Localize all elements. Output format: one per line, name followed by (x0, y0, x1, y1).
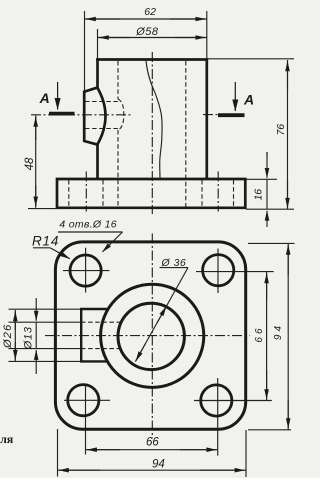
svg-text:R14: R14 (32, 234, 59, 249)
svg-text:для: для (0, 432, 14, 446)
svg-text:A: A (39, 90, 50, 106)
svg-text:4 отв.Ø 16: 4 отв.Ø 16 (59, 219, 117, 231)
svg-text:Ø58: Ø58 (135, 26, 159, 38)
svg-text:94: 94 (273, 323, 284, 340)
svg-text:16: 16 (253, 189, 265, 201)
svg-text:48: 48 (24, 157, 36, 170)
svg-text:66: 66 (146, 437, 159, 449)
svg-text:A: A (243, 92, 254, 108)
svg-text:Ø13: Ø13 (23, 326, 35, 350)
svg-text:66: 66 (254, 325, 265, 342)
svg-text:94: 94 (152, 458, 165, 470)
svg-text:Ø 36: Ø 36 (161, 257, 187, 269)
svg-text:76: 76 (275, 124, 287, 136)
svg-text:62: 62 (144, 6, 156, 18)
svg-text:Ø26: Ø26 (2, 324, 14, 349)
